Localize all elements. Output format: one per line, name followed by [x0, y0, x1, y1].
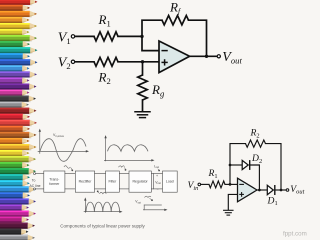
- svg-text:Trans-: Trans-: [49, 178, 60, 182]
- wire Vin to R1: [201, 183, 209, 185]
- svg-text:AC line: AC line: [30, 184, 41, 188]
- waveform symbol dc small: [145, 196, 153, 201]
- diode D1: [267, 185, 278, 207]
- resistor Rf: [162, 0, 189, 25]
- wire D1 to Vout: [275, 189, 286, 191]
- bus wires filter to regulator: [119, 173, 129, 175]
- ground (top circuit): [135, 112, 150, 118]
- wire node A to inverting input: [142, 36, 159, 50]
- svg-text:in,sinus: in,sinus: [55, 135, 64, 138]
- block Regulator: [129, 171, 151, 192]
- diode D2: [242, 153, 262, 170]
- waveform plot Vin sinus: [38, 129, 89, 162]
- wire R1 to inverting node: [225, 183, 238, 185]
- resistor R2: [246, 128, 266, 148]
- wire non-inverting input to ground: [228, 194, 237, 209]
- resistor R2: [94, 57, 118, 86]
- svg-text:out: out: [158, 182, 162, 185]
- bus wires transformer to rectifier: [65, 173, 75, 175]
- wire V1 to R1: [75, 35, 94, 37]
- op-amp U2: [238, 178, 258, 202]
- waveform symbol humps small: [97, 191, 107, 194]
- waveform symbol ripple small: [119, 166, 127, 171]
- op-amp U1: [159, 41, 190, 73]
- output node junction: [205, 55, 208, 58]
- D2 output junction: [258, 189, 261, 192]
- svg-text:−: −: [156, 187, 158, 191]
- inverting node junction: [229, 183, 232, 186]
- input terminal V2: [58, 55, 75, 71]
- waveform symbol sine small: [64, 166, 73, 172]
- svg-text:+: +: [156, 174, 158, 178]
- svg-text:To: To: [32, 179, 36, 183]
- AC line input terminals: [30, 173, 41, 190]
- output voltage Vout indicator: [154, 174, 162, 192]
- output terminal Vout: [217, 50, 242, 66]
- block Load: [163, 171, 178, 192]
- resistor Rg: [138, 62, 165, 112]
- wire R2 to node B: [118, 61, 143, 63]
- bus wires AC to transformer: [36, 173, 44, 175]
- input terminal V1: [58, 30, 75, 46]
- output terminal Vout (rectifier): [286, 184, 304, 196]
- bus wires regulator to load: [151, 173, 162, 175]
- wire Rf to output node: [189, 20, 207, 56]
- block Transformer: [44, 171, 65, 192]
- wire D2 to op-amp output: [250, 165, 260, 190]
- ground (rectifier circuit): [224, 210, 233, 215]
- wire inverting node up to feedback: [230, 144, 246, 185]
- input terminal Vin: [188, 180, 201, 192]
- svg-text:out: out: [138, 201, 142, 204]
- wire R1 to node A: [118, 35, 142, 37]
- svg-text:Filter: Filter: [109, 180, 118, 184]
- svg-text:Load: Load: [166, 180, 174, 184]
- svg-text:out: out: [156, 166, 160, 169]
- wire R2 to output node: [266, 144, 282, 190]
- block Filter: [106, 171, 120, 192]
- waveform rectified humps: [84, 197, 123, 213]
- wire to diode D2: [230, 164, 242, 166]
- label Iout: [154, 164, 160, 171]
- svg-text:Rectifier: Rectifier: [79, 180, 93, 184]
- resistor R1: [94, 12, 118, 41]
- svg-text:former: former: [49, 182, 60, 186]
- feedback node junction (D2 tap): [229, 164, 232, 167]
- wire node A up to Rf: [142, 20, 162, 36]
- resistor R1 (precision rectifier): [208, 168, 226, 188]
- svg-text:Components of typical linear p: Components of typical linear power suppl…: [60, 223, 145, 228]
- wire op-amp output to Vout: [190, 55, 217, 57]
- block Rectifier: [75, 171, 94, 192]
- svg-text:Regulator: Regulator: [133, 180, 149, 184]
- node A junction: [140, 35, 143, 38]
- wire node B to non-inverting input: [143, 61, 160, 63]
- bus wires rectifier to filter: [95, 173, 106, 175]
- waveform DC output: [135, 200, 167, 212]
- node B junction: [141, 60, 144, 63]
- output node junction (rectifier): [280, 189, 283, 192]
- waveform plot rectified ripple: [104, 135, 154, 161]
- wire op-amp output to D1: [257, 189, 267, 191]
- wire V2 to R2: [75, 61, 94, 63]
- svg-text:fppt.com: fppt.com: [283, 231, 307, 238]
